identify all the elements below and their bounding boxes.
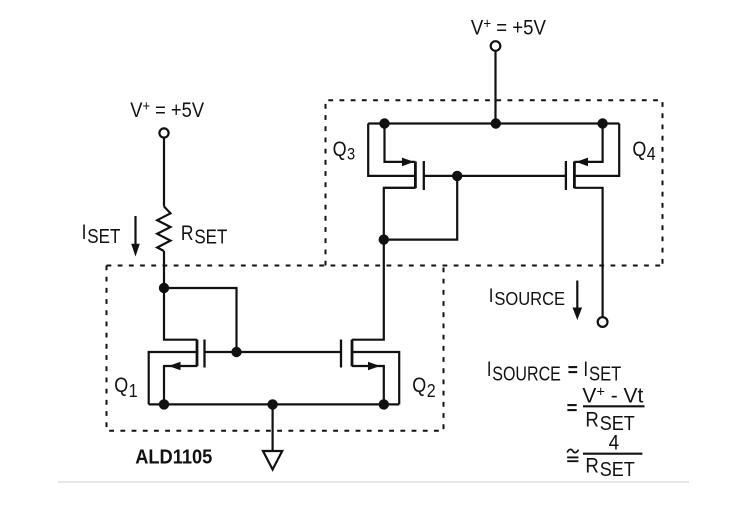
wire top rail: [368, 122, 619, 124]
Q3 source lead: [385, 124, 416, 162]
wire Q3-Q4 gate line: [424, 175, 566, 177]
wire resistor to Q1 drain: [164, 251, 197, 340]
page divider line: [58, 481, 689, 483]
node dot rail center (V+): [491, 118, 501, 128]
wire to ground: [272, 404, 274, 451]
svg-text:V+ - Vt: V+ - Vt: [582, 384, 643, 407]
svg-text:ALD1105: ALD1105: [135, 447, 212, 469]
svg-text:V+ = +5V: V+ = +5V: [130, 97, 205, 122]
fraction bar (line 3): [583, 453, 642, 455]
wire bottom rail (Q1/Q2 sources): [149, 403, 400, 405]
transistor Q3 gate bar: [423, 161, 425, 190]
equation line 2: =: [567, 405, 576, 410]
node dot rail right (Q4 source): [597, 118, 607, 128]
transistor Q1 gate bar: [203, 340, 205, 368]
ground symbol: [263, 451, 282, 470]
transistor Q4 gate bar: [565, 161, 567, 190]
node dot Q3 drain/gate tie: [379, 234, 389, 244]
dashed box Q3/Q4 (top, three sides): [326, 100, 663, 265]
wire gate tap branch: [164, 288, 237, 352]
arrow ISOURCE (current direction): [573, 281, 583, 321]
terminal (left V+): [159, 128, 168, 137]
shared dashed boundary line: [107, 265, 663, 267]
wire V+ terminal to rail: [494, 51, 496, 124]
transistor Q4 channel bar: [573, 162, 576, 189]
transistor Q2 gate bar: [340, 340, 342, 368]
svg-text:4: 4: [609, 432, 619, 455]
Q1 source lead: [164, 366, 197, 404]
svg-text:ISOURCE: ISOURCE: [489, 285, 565, 309]
svg-text:ISOURCE: ISOURCE: [487, 357, 561, 385]
wire Q3 gate-drain tie: [384, 176, 457, 240]
terminal (ISOURCE output): [598, 317, 608, 327]
Q4 drain lead (to output): [574, 188, 602, 317]
Q2 drain lead (up to Q3 drain): [352, 188, 415, 340]
node dot on Q1-Q2 gate line: [231, 347, 241, 357]
Q2 source lead: [352, 366, 384, 404]
node dot rail left (Q3 source): [379, 118, 389, 128]
svg-text:RSET: RSET: [585, 455, 635, 482]
svg-text:RSET: RSET: [181, 222, 227, 247]
Q1 source arrow: [169, 362, 181, 371]
dashed box ALD1105 (bottom, three sides): [107, 266, 444, 431]
Q4 bulk lead: [574, 124, 619, 176]
node dot (RSET / Q1 drain / gate tap): [159, 283, 169, 293]
node dot Q1 source: [159, 399, 169, 409]
wire terminal to resistor: [163, 138, 165, 207]
transistor Q3 channel bar: [414, 162, 417, 189]
wire Q1-Q2 gate line: [205, 351, 342, 353]
equation line 1: =: [568, 367, 577, 372]
terminal (top V+): [491, 41, 501, 51]
svg-text:ISET: ISET: [583, 359, 621, 385]
Q1 bulk lead: [149, 352, 197, 404]
node dot ground tap: [267, 399, 277, 409]
equation line 3: congruent symbol (tilde over equals): [567, 449, 578, 461]
resistor RSET: [157, 207, 170, 252]
svg-text:V+ = +5V: V+ = +5V: [471, 15, 547, 40]
node dot Q2 source: [379, 399, 389, 409]
Q3 source arrow: [402, 158, 414, 167]
Q2 bulk lead: [352, 352, 399, 404]
arrow ISET (current direction): [131, 216, 140, 257]
svg-text:ISET: ISET: [82, 222, 121, 247]
Q3 drain lead (down): [384, 187, 416, 189]
transistor Q1 channel bar: [196, 340, 199, 367]
Q4 source arrow: [576, 158, 588, 167]
node dot on gate line: [452, 171, 462, 181]
fraction bar (line 2): [583, 405, 645, 407]
Q4 source lead: [574, 124, 602, 162]
Q3 bulk lead: [368, 124, 415, 176]
transistor Q2 channel bar: [351, 340, 354, 367]
Q2 source arrow: [368, 362, 380, 371]
